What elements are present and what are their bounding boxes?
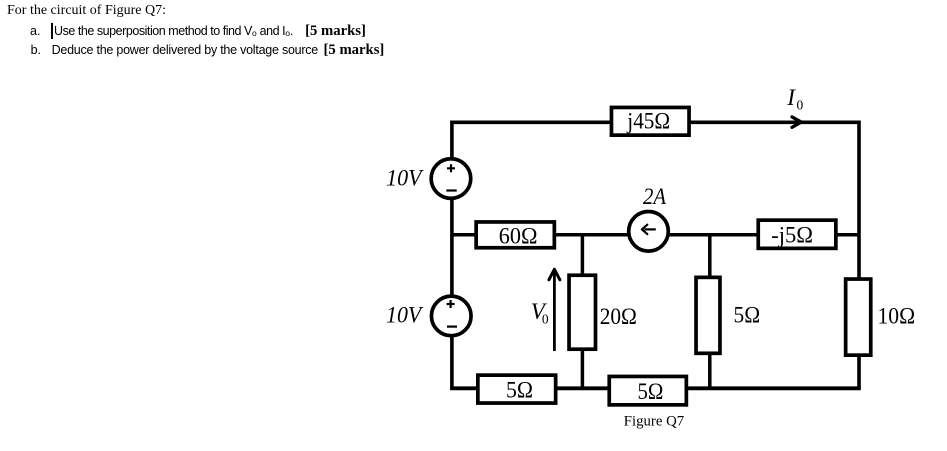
svg-text:5Ω: 5Ω: [638, 379, 664, 404]
svg-text:5Ω: 5Ω: [734, 303, 761, 328]
resistor 60 (box): [476, 222, 554, 248]
question text line 1: [7, 3, 166, 18]
V2 plus sign: [447, 300, 455, 308]
svg-text:V0: V0: [531, 299, 549, 327]
voltage source V2 (circle): [431, 296, 471, 336]
svg-text:5Ω: 5Ω: [506, 377, 533, 402]
resistor -j5 (box): [758, 220, 836, 248]
voltage source V1 (circle): [431, 159, 471, 199]
svg-text:10Ω: 10Ω: [878, 304, 916, 329]
resistor j45 (box): [611, 107, 689, 135]
svg-text:20Ω: 20Ω: [600, 304, 637, 329]
wire: 5-ohm branch vertical: [708, 235, 712, 388]
Io arrowhead on top wire: [792, 117, 801, 127]
current source arrow shaft: [645, 228, 656, 230]
wire: outer loop left-top-right: [452, 122, 859, 388]
resistor 5 bottom-middle (box): [609, 376, 686, 404]
resistor 5 right-middle (vertical box): [696, 277, 720, 353]
wire: middle horizontal: [452, 233, 859, 237]
Vo reference arrow shaft: [553, 271, 556, 351]
svg-text:Figure Q7: Figure Q7: [624, 414, 685, 430]
Vo reference arrow head: [549, 269, 560, 280]
svg-text:2A: 2A: [643, 184, 667, 209]
resistor 10 (vertical box): [846, 279, 871, 355]
wire: bottom: [450, 386, 861, 390]
text cursor: [51, 23, 53, 39]
current source arrow head: [642, 225, 647, 234]
svg-text:60Ω: 60Ω: [499, 223, 538, 248]
current source 2A (circle): [629, 212, 669, 252]
svg-text:10V: 10V: [386, 302, 424, 327]
wire: 20-ohm branch vertical: [581, 235, 585, 388]
resistor 5 bottom-left (box): [478, 375, 556, 403]
svg-text:I0: I0: [786, 85, 803, 112]
V1 minus sign: [446, 189, 456, 191]
svg-text:10V: 10V: [386, 166, 424, 191]
question item a text: [54, 25, 366, 39]
question item b marker: [31, 44, 41, 58]
question item b text: [52, 44, 385, 58]
svg-text:-j5Ω: -j5Ω: [771, 223, 813, 248]
resistor 20 (vertical box): [569, 275, 595, 349]
question item a marker: [30, 25, 40, 39]
V2 minus sign: [447, 326, 457, 328]
V1 plus sign: [447, 164, 455, 172]
svg-text:j45Ω: j45Ω: [626, 108, 670, 133]
